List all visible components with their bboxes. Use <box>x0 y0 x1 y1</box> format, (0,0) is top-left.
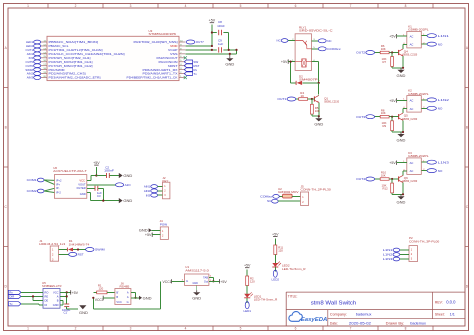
svg-text:GND: GND <box>225 62 234 67</box>
svg-text:R12: R12 <box>383 186 389 190</box>
svg-text:+5V: +5V <box>220 280 227 284</box>
mcu pin 19 PD2/AIN3/[TIM2_CH3] <box>41 72 86 76</box>
relay K1 G5MB-202PL <box>403 24 429 48</box>
svg-text:R9: R9 <box>383 124 387 128</box>
power +5V (u6) <box>87 161 100 180</box>
capacitor C3 1uF <box>87 186 104 198</box>
svg-text:OUT3: OUT3 <box>356 115 365 119</box>
svg-text:NO: NO <box>438 42 443 46</box>
svg-text:SWIM: SWIM <box>95 248 105 252</box>
wire u5 a b <box>60 292 68 305</box>
svg-text:G5MB-202PL: G5MB-202PL <box>408 154 429 158</box>
ground flag (rs485) <box>131 295 152 300</box>
svg-text:L1N3: L1N3 <box>383 257 393 261</box>
transistor Q5 S8050_C2150 <box>399 113 418 132</box>
svg-text:1N4148WS-T4: 1N4148WS-T4 <box>69 242 90 246</box>
svg-text:LED1: LED1 <box>243 309 251 313</box>
svg-text:+5V: +5V <box>72 291 79 295</box>
net flag RST (j1) <box>59 252 84 256</box>
svg-text:HDR-M-2.54_1x3: HDR-M-2.54_1x3 <box>39 242 65 246</box>
svg-text:IP-2: IP-2 <box>56 190 61 194</box>
net flag COMxx (j5) <box>260 195 283 199</box>
net flag L1N3 <box>421 160 449 164</box>
svg-text:A: A <box>127 295 129 299</box>
title block <box>286 292 465 326</box>
net flag OUT5 <box>26 60 41 64</box>
svg-text:RS485: RS485 <box>120 285 130 289</box>
resistor R5 10K <box>311 98 320 116</box>
pin flag SW <box>184 60 198 64</box>
net flag L1N3 (p2) <box>383 257 409 261</box>
resistor R7 10K <box>382 51 404 67</box>
mcu pin 11 PB5/I2C_SDA/[TIM1_BKIN] <box>41 40 99 44</box>
mcu pin 16 PC6/SPI_MOSI/[TIM1_CH1] <box>41 60 93 64</box>
svg-text:S8050_C2150: S8050_C2150 <box>403 179 418 183</box>
mcu pin 8 VCAP <box>168 48 185 52</box>
svg-text:SP485EEN-L/TR: SP485EEN-L/TR <box>42 284 62 288</box>
svg-text:AIN3: AIN3 <box>27 76 34 80</box>
pin flag Tx (u5) <box>8 302 43 306</box>
svg-text:2020-05-02: 2020-05-02 <box>349 322 371 326</box>
net flag OUT4 (K3 drive) <box>356 177 374 181</box>
resistor R10 10K <box>375 171 399 181</box>
svg-text:B: B <box>466 125 468 129</box>
net flag LED2 <box>272 270 280 281</box>
transistor Q6 S8050_C2150 <box>399 175 418 194</box>
pin flag Rx <box>184 68 197 72</box>
wire c8 top <box>212 32 229 34</box>
svg-text:VCC1: VCC1 <box>95 298 104 302</box>
svg-text:GND: GND <box>397 73 406 78</box>
svg-text:AC: AC <box>410 34 414 38</box>
regulator U1 AMS1117-5.0 <box>182 265 212 285</box>
svg-text:A: A <box>127 290 129 294</box>
pin flag Tx <box>184 72 197 76</box>
svg-text:RE: RE <box>45 294 49 298</box>
net flag IN3 <box>29 56 41 60</box>
svg-text:Sheet:: Sheet: <box>435 312 445 316</box>
power +5V (led2) <box>272 233 279 246</box>
svg-text:B: B <box>5 125 7 129</box>
ground (c2) <box>119 173 133 178</box>
diode D1 1N4148WS-T4 <box>59 239 90 251</box>
varistor U2 GM3002 MOV <box>278 187 299 198</box>
svg-text:A: A <box>57 294 59 298</box>
svg-text:SRD-05VDC-SL-C: SRD-05VDC-SL-C <box>299 29 334 33</box>
svg-text:R7: R7 <box>383 60 387 64</box>
svg-text:AC: AC <box>410 169 414 173</box>
svg-text:S8050_C2150: S8050_C2150 <box>324 100 339 104</box>
svg-text:TAB: TAB <box>203 275 208 279</box>
connector J2 KEY <box>162 176 170 199</box>
svg-text:EasyEDA: EasyEDA <box>301 317 328 323</box>
resistor R2 120 <box>246 276 255 294</box>
mcu pin 1 PD4/BEEP/TIM2_CH1/UART1_CK <box>127 76 186 80</box>
power +5V (u5) <box>71 290 79 295</box>
svg-text:1/1: 1/1 <box>450 313 455 317</box>
svg-text:Tx: Tx <box>193 72 197 76</box>
capacitor C9 1uF <box>217 38 224 53</box>
net flag VCC1 (u1) <box>163 279 185 284</box>
svg-text:COMxx: COMxx <box>327 47 341 51</box>
svg-text:+5V: +5V <box>389 161 396 165</box>
wire K3 coil to collector <box>403 171 407 176</box>
net flag L1N1 (p2) <box>383 248 409 252</box>
svg-text:LED-TH-5mm_R: LED-TH-5mm_R <box>254 298 278 302</box>
net flag LED2 <box>26 44 41 48</box>
svg-text:bademux: bademux <box>410 322 426 326</box>
svg-text:+5V: +5V <box>389 99 396 103</box>
mcu pin 4 NRST <box>168 64 185 68</box>
svg-text:GND: GND <box>53 303 59 307</box>
resistor R1 120 <box>93 284 115 294</box>
net flag L1N1 <box>421 34 449 38</box>
capacitor C8 100nF <box>217 20 225 36</box>
connector J5 CONN-TH_2P-PL30 <box>301 185 332 206</box>
connector J1 HDR-M-2.54_1x3 <box>39 239 65 261</box>
no-connect pin PD4 <box>184 76 187 79</box>
svg-text:GND: GND <box>193 282 199 285</box>
ground (mcu) <box>225 53 234 67</box>
svg-text:OUT4: OUT4 <box>356 177 365 181</box>
net flag COM2 <box>27 189 44 193</box>
svg-text:VCC: VCC <box>53 290 59 294</box>
svg-text:C1: C1 <box>64 311 68 315</box>
power +5V (j4) <box>145 233 160 238</box>
wire vdd <box>185 45 212 47</box>
svg-text:L1N2: L1N2 <box>383 253 393 257</box>
svg-text:5: 5 <box>240 4 242 8</box>
svg-text:GND: GND <box>79 310 88 315</box>
resistor R8 10K <box>375 108 399 118</box>
svg-text:GND: GND <box>123 198 132 203</box>
net flag OUT2 (K1 drive) <box>356 51 374 55</box>
svg-text:bademux: bademux <box>356 313 372 317</box>
net flag OUT3 (K2 drive) <box>356 115 374 119</box>
net flag SWIM (j1) <box>86 248 106 252</box>
svg-text:+5V: +5V <box>145 233 152 237</box>
mcu pin 6 PA3/OSCOUT <box>157 56 186 60</box>
svg-text:Drawn By:: Drawn By: <box>386 321 405 325</box>
relay RLY1 SRD-05VDC-SL-C <box>292 25 333 70</box>
wire collector Q1 <box>318 83 320 94</box>
svg-text:6: 6 <box>295 4 297 8</box>
ground (c1) <box>60 303 88 315</box>
svg-text:GND: GND <box>139 228 148 233</box>
EasyEDA logo <box>289 312 327 323</box>
svg-text:0.0.0: 0.0.0 <box>446 300 456 305</box>
power +5V (K2) <box>389 98 407 103</box>
svg-text:G5MB-202PL: G5MB-202PL <box>408 28 429 32</box>
svg-text:+5V: +5V <box>93 161 100 165</box>
net flag IN3 (key) <box>146 193 163 197</box>
svg-text:IP-: IP- <box>56 186 59 190</box>
svg-text:S8050_C2150: S8050_C2150 <box>403 53 418 57</box>
svg-text:NC: NC <box>277 39 281 43</box>
net flag OUT6 <box>26 64 41 68</box>
net flag NO (K1) <box>421 42 443 46</box>
svg-text:LED2: LED2 <box>272 277 280 281</box>
net flag SWIM <box>25 68 40 72</box>
svg-text:COMxx: COMxx <box>260 195 273 199</box>
svg-text:100nF: 100nF <box>104 169 114 173</box>
wire rly1 pin1 down <box>290 61 292 83</box>
svg-text:7: 7 <box>350 327 352 331</box>
svg-text:NO: NO <box>438 107 443 111</box>
ic U5 SP485EEN-L/TR <box>42 281 62 308</box>
svg-text:8: 8 <box>405 327 407 331</box>
junction c8 <box>211 31 213 33</box>
svg-text:AC: AC <box>410 161 414 165</box>
ground (q1) <box>314 115 323 126</box>
mcu pin 5 PA1/OSCIN <box>159 60 186 64</box>
wire K2 coil to collector <box>403 109 407 114</box>
svg-text:OUT7: OUT7 <box>196 40 204 44</box>
svg-text:10K: 10K <box>381 111 386 115</box>
svg-text:4: 4 <box>185 327 187 331</box>
svg-text:Date:: Date: <box>330 321 338 325</box>
svg-text:VCC: VCC <box>116 300 122 304</box>
net flag AIN3 <box>27 76 41 80</box>
net flag NC (j5) <box>267 199 300 203</box>
junction vdd <box>211 45 213 47</box>
net flag L1N2 <box>421 98 449 102</box>
svg-text:GND: GND <box>80 192 86 196</box>
svg-text:COM2: COM2 <box>27 189 38 193</box>
svg-text:+5V: +5V <box>244 264 251 268</box>
svg-text:RO: RO <box>45 290 49 294</box>
net flag AIN2 (key) <box>144 189 163 193</box>
mcu pin 7 VSS <box>170 52 185 56</box>
svg-text:NC: NC <box>267 199 271 203</box>
svg-text:NO: NO <box>438 169 443 173</box>
svg-text:10K: 10K <box>381 174 386 178</box>
svg-text:6: 6 <box>295 327 297 331</box>
connector J4 POW <box>160 219 169 239</box>
svg-text:GND: GND <box>397 200 406 205</box>
svg-text:IN3: IN3 <box>146 193 151 197</box>
svg-text:100nF: 100nF <box>217 24 225 28</box>
svg-text:8: 8 <box>405 4 407 8</box>
svg-text:3: 3 <box>130 327 132 331</box>
transistor Q4 S8050_C2150 <box>399 49 418 68</box>
svg-text:GND: GND <box>192 296 201 301</box>
svg-text:TITLE:: TITLE: <box>288 294 298 298</box>
wire rs485 a1 <box>131 292 137 299</box>
svg-text:DE: DE <box>45 298 49 302</box>
svg-text:KEY: KEY <box>162 179 168 183</box>
svg-text:10K: 10K <box>315 109 320 113</box>
svg-text:LED-TH-5mm_R: LED-TH-5mm_R <box>282 267 306 271</box>
resistor R12 10K <box>382 178 404 194</box>
svg-text:VOUT: VOUT <box>78 183 86 187</box>
connector P2 CONN-TH_3P-PL00 <box>409 236 440 261</box>
resistor R9 10K <box>382 116 404 132</box>
power +5V (K3) <box>389 161 407 166</box>
resistor R6 10K <box>375 44 399 54</box>
net flag OUT1 <box>26 48 41 52</box>
net flag OUT1 (rly1 drive) <box>277 97 295 101</box>
power +5V (K1) <box>389 34 407 39</box>
ground (Q6) <box>397 193 406 204</box>
net flag COMxx <box>312 47 342 51</box>
power +5V (led1) <box>244 264 251 276</box>
wire c8 right down <box>228 33 230 50</box>
ground (u6) <box>119 198 133 203</box>
net flag L1N2 (p2) <box>383 253 409 257</box>
mcu U3 STM8S103F3P6 <box>47 29 179 81</box>
svg-text:PD4/BEEP/TIM2_CH1/UART1_CK: PD4/BEEP/TIM2_CH1/UART1_CK <box>127 76 178 80</box>
resistor R11 120 <box>274 245 284 263</box>
net flag A2O <box>87 183 131 187</box>
svg-text:L1N1: L1N1 <box>383 248 393 252</box>
net flag AIN1 (key) <box>144 185 163 189</box>
svg-text:OUT2: OUT2 <box>356 51 365 55</box>
pin flag RST <box>184 64 199 68</box>
svg-text:1: 1 <box>27 4 29 8</box>
svg-text:2: 2 <box>75 4 77 8</box>
wire u6 gnd <box>87 188 119 201</box>
svg-text:CONN-TH_2P-PL30: CONN-TH_2P-PL30 <box>301 188 332 192</box>
relay K3 G5MB-202PL <box>403 151 429 175</box>
capacitor C2 100nF <box>96 165 118 178</box>
svg-text:G: G <box>127 300 129 304</box>
ground flag (j4) <box>139 228 160 233</box>
wire K1 coil to collector <box>403 44 407 49</box>
ground (Q4) <box>397 67 406 78</box>
svg-text:PD3/AIN4/TIM2_CH2/[ADC_ETR]: PD3/AIN4/TIM2_CH2/[ADC_ETR] <box>49 76 101 80</box>
mcu pin 18 PD1/SWIM <box>41 68 66 72</box>
net flag COM1 <box>27 178 44 182</box>
mcu pin 14 PC4/CLK_CCO/TIM1_CH4/AIN2/[TIM1_CH2N] <box>41 52 125 56</box>
net flag NC (rly1 left) <box>277 39 296 43</box>
svg-text:FILTER: FILTER <box>77 186 86 190</box>
net flag NO (K2) <box>421 106 443 110</box>
module J6 RS485 <box>115 282 131 305</box>
svg-text:+5V: +5V <box>272 233 279 237</box>
svg-text:IP+2: IP+2 <box>56 178 62 182</box>
power +5V (u1 out) <box>209 279 227 284</box>
svg-text:+5V: +5V <box>389 35 396 39</box>
svg-text:G5MB-202PL: G5MB-202PL <box>408 92 429 96</box>
wire com crossover <box>44 180 54 193</box>
no-connect pin PA3/OSCOUT <box>184 56 187 59</box>
svg-text:GND: GND <box>123 173 132 178</box>
net flag NC (rly1 right) <box>312 39 333 43</box>
power +5V (rly1) <box>281 59 295 64</box>
svg-text:RST: RST <box>78 253 84 257</box>
svg-text:OUT1: OUT1 <box>277 97 286 101</box>
svg-text:B: B <box>57 298 59 302</box>
mcu pin 13 PC3/TIM1_CH3/TLI/[TIM1_CH1N] <box>41 48 103 52</box>
svg-text:10K: 10K <box>381 47 386 51</box>
wire vss <box>185 50 236 54</box>
wire vcc1 loop <box>92 281 160 309</box>
svg-text:AC: AC <box>410 43 414 47</box>
svg-text:AC: AC <box>410 99 414 103</box>
svg-text:120: 120 <box>250 279 255 283</box>
capacitor C1 100pF <box>62 304 71 315</box>
svg-text:VCC: VCC <box>79 178 85 182</box>
led LED2 LED-TH-5mm_R <box>272 262 306 272</box>
mcu pin 9 VDD <box>170 44 185 48</box>
power +5V (mcu) <box>209 19 216 46</box>
mcu pin 20 PD3/AIN4/TIM2_CH2/[ADC_ETR] <box>41 76 101 80</box>
mcu pin 3 PD6/AIN6/UART1_RX <box>143 68 186 72</box>
net flag AIN2 <box>27 72 41 76</box>
wire u5 vcc <box>60 291 71 293</box>
svg-text:L1N2: L1N2 <box>438 98 450 102</box>
ic U6 AC67UELCTP-20A-T <box>53 166 87 198</box>
svg-text:1K: 1K <box>301 94 305 98</box>
resistor R4 1K <box>296 91 315 100</box>
svg-text:AC67UELCTP-20A-T: AC67UELCTP-20A-T <box>53 169 87 173</box>
led LED1 LED-TH-5mm_R <box>244 292 278 303</box>
svg-text:COM1: COM1 <box>27 178 38 182</box>
svg-text:DI: DI <box>45 303 48 307</box>
mcu pin 10 PA3/TIM2_CH3/[SPI_NSS] <box>134 40 186 44</box>
svg-text:stm8 Wall Switch: stm8 Wall Switch <box>311 300 357 306</box>
net flag OUT7 <box>186 40 204 44</box>
svg-text:L1N3: L1N3 <box>438 160 450 164</box>
net flag LED1 <box>26 40 41 44</box>
svg-text:GND: GND <box>314 122 323 127</box>
svg-text:A2O: A2O <box>125 183 132 187</box>
wire vcap <box>185 49 236 51</box>
svg-text:7: 7 <box>350 4 352 8</box>
relay K2 G5MB-202PL <box>403 89 429 113</box>
svg-text:4: 4 <box>185 4 187 8</box>
svg-text:AC: AC <box>410 107 414 111</box>
pin flag DIR (u5) <box>8 294 43 300</box>
net flag AIN1 <box>27 52 41 56</box>
diode D2 SM4007PL <box>291 74 321 85</box>
ground (u1) <box>192 285 201 300</box>
svg-text:1: 1 <box>27 327 29 331</box>
svg-text:120: 120 <box>278 249 283 253</box>
transistor Q1 S8050_C2150 <box>314 94 339 116</box>
wire u1 tab <box>209 277 215 282</box>
svg-text:CONN-TH_3P-PL00: CONN-TH_3P-PL00 <box>409 239 440 243</box>
svg-text:GM3002 MOV: GM3002 MOV <box>278 190 299 194</box>
svg-text:SM4007PL: SM4007PL <box>299 78 320 82</box>
wire u2 to j5 <box>292 195 300 197</box>
svg-text:2: 2 <box>75 327 77 331</box>
svg-text:DIR: DIR <box>9 295 14 299</box>
junction vss <box>235 49 237 51</box>
net flag LED1 <box>243 302 251 313</box>
mcu pin 12 PB4/I2C_SCL <box>41 44 69 48</box>
svg-text:STM8S103F3P6: STM8S103F3P6 <box>149 32 177 36</box>
svg-text:1uF: 1uF <box>218 42 223 46</box>
mcu pin 2 PD5/AIN5/UART1_TX <box>143 72 186 76</box>
svg-text:IP+: IP+ <box>56 182 60 186</box>
svg-text:Company:: Company: <box>330 312 347 316</box>
svg-text:+5V: +5V <box>209 19 216 23</box>
ground (Q5) <box>397 131 406 142</box>
pin flag Rx (u5) <box>8 290 43 294</box>
junction vcap-c9 <box>228 49 230 51</box>
svg-text:Out: Out <box>204 280 208 284</box>
svg-text:5: 5 <box>240 327 242 331</box>
svg-text:S8050_C2150: S8050_C2150 <box>403 117 418 121</box>
svg-text:L1N1: L1N1 <box>438 34 450 38</box>
net flag VCC1 (u5) <box>95 296 115 302</box>
svg-text:3: 3 <box>130 4 132 8</box>
svg-text:GND: GND <box>397 137 406 142</box>
svg-text:VCC1: VCC1 <box>163 280 172 284</box>
svg-text:REV:: REV: <box>435 300 443 304</box>
